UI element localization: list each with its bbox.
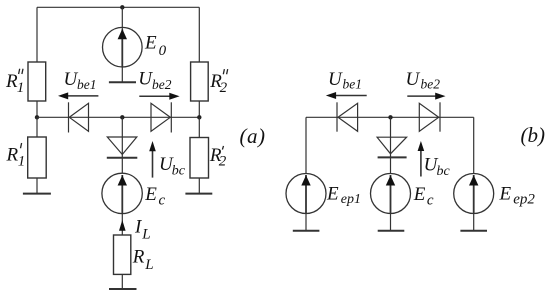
node center junction a xyxy=(120,115,124,119)
ground (left a) xyxy=(23,193,51,195)
source E0 xyxy=(103,27,143,67)
wire center column a xyxy=(121,117,123,173)
wire left branch upper a xyxy=(36,7,38,62)
wire right branch b xyxy=(473,117,475,173)
wire center column b xyxy=(390,117,392,173)
arrow Ubc (a, up) xyxy=(152,148,154,178)
svg-text:U: U xyxy=(406,69,421,90)
svg-text:be2: be2 xyxy=(421,77,441,92)
wire Eep1 ground stub xyxy=(305,214,307,231)
wire R1" to node A xyxy=(36,101,38,117)
wire middle rail a xyxy=(37,116,199,118)
svg-text:(a): (a) xyxy=(240,124,266,148)
ground (E0 terminal bar) xyxy=(109,81,136,83)
wire right branch upper a xyxy=(198,7,200,62)
source Ec (b) xyxy=(371,174,411,214)
svg-text:E: E xyxy=(499,183,512,204)
arrow Ube2 (a, pointing right) xyxy=(139,95,172,97)
wire Ec to RL with IL arrow xyxy=(121,214,123,235)
wire RL to ground xyxy=(121,274,123,289)
wire Ec(b) ground stub xyxy=(390,214,392,231)
node top junction a xyxy=(120,5,124,9)
svg-text:bc: bc xyxy=(437,164,451,179)
wire node A to R1' xyxy=(36,117,38,137)
wire Eep2 ground stub xyxy=(473,214,475,231)
svg-text:be1: be1 xyxy=(77,77,97,92)
resistor R1' xyxy=(28,137,47,178)
ground (Eep1) xyxy=(293,230,320,232)
wire R2" to node B xyxy=(198,101,200,117)
svg-text:c: c xyxy=(159,192,166,208)
diode VD5 (right, pointing right) b xyxy=(419,103,438,131)
resistor R2' xyxy=(190,138,209,179)
ground (RL) xyxy=(109,288,137,290)
svg-text:R: R xyxy=(6,145,19,166)
wire E0 branch xyxy=(121,7,123,82)
svg-text:E: E xyxy=(144,184,157,205)
ground (Eep2) xyxy=(460,230,487,232)
wire left branch b xyxy=(305,117,307,173)
arrow Ube1 (a, pointing left) xyxy=(66,95,98,97)
svg-text:L: L xyxy=(144,257,153,273)
source Ec (a) xyxy=(102,173,142,213)
wire node B to R2' xyxy=(198,117,200,137)
svg-text:be1: be1 xyxy=(343,77,363,92)
wire R2' to ground xyxy=(198,178,200,194)
svg-text:E: E xyxy=(413,184,426,205)
resistor R2" xyxy=(191,62,209,101)
diode VD1 (left, pointing left) a xyxy=(68,102,70,132)
svg-text:c: c xyxy=(427,192,434,208)
arrow Ube2 (b, pointing right) xyxy=(407,95,438,97)
svg-text:1: 1 xyxy=(17,80,25,96)
ground (Ec b) xyxy=(378,230,405,232)
arrow Ube1 (b, pointing left) xyxy=(334,95,367,97)
source Eep2 xyxy=(454,174,494,214)
svg-text:(b): (b) xyxy=(521,123,546,147)
svg-text:bc: bc xyxy=(172,164,186,179)
node B (right junction a) xyxy=(197,115,201,119)
diode VD3 (down) a xyxy=(107,137,137,155)
wire top rail circuit a xyxy=(37,6,199,8)
label R2" double prime xyxy=(223,69,227,74)
label R2' prime xyxy=(222,146,223,150)
node center junction b xyxy=(388,115,392,119)
wire top rail circuit b xyxy=(306,116,474,118)
diode VD6 (down) b xyxy=(377,137,407,154)
label R1" double prime xyxy=(19,69,23,74)
svg-text:1: 1 xyxy=(18,154,26,170)
svg-text:E: E xyxy=(326,183,339,204)
source Eep1 xyxy=(286,174,326,214)
svg-text:2: 2 xyxy=(220,80,228,96)
svg-text:2: 2 xyxy=(219,154,227,170)
wire R1' to ground xyxy=(36,178,38,194)
resistor R1" xyxy=(28,62,46,101)
svg-text:L: L xyxy=(141,227,150,243)
ground (right a) xyxy=(185,193,212,195)
svg-text:R: R xyxy=(132,247,145,268)
node A (left junction a) xyxy=(35,115,39,119)
arrow Ubc (b, up) xyxy=(420,148,422,177)
svg-text:0: 0 xyxy=(159,43,167,59)
resistor RL xyxy=(114,235,131,274)
svg-text:be2: be2 xyxy=(152,77,172,92)
svg-text:E: E xyxy=(144,32,157,53)
svg-text:ep2: ep2 xyxy=(513,191,535,207)
svg-text:U: U xyxy=(328,69,343,90)
diode VD2 (right, pointing right) a xyxy=(151,103,170,131)
label R1' prime xyxy=(21,143,22,148)
diode VD4 (left, pointing left) b xyxy=(336,102,338,131)
svg-text:ep1: ep1 xyxy=(341,192,361,207)
